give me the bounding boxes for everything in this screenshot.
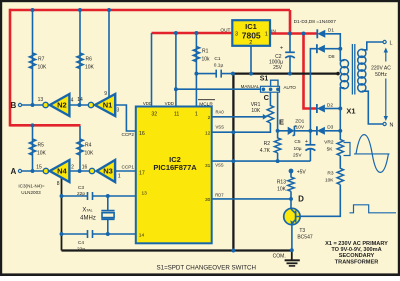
svg-text:D1-D3,D8 =1N4007: D1-D3,D8 =1N4007: [294, 19, 337, 25]
wire D1 to column: [325, 34, 340, 49]
junction C3 left: [60, 194, 64, 198]
svg-text:17: 17: [139, 171, 145, 177]
IC U1 7805 body: [232, 20, 270, 46]
resistor R13: [288, 177, 294, 191]
wire AUTO to E: [277, 92, 279, 131]
junction D: [289, 197, 293, 201]
wire +12V lower-left rail: [10, 124, 81, 127]
transformer X1 core: [352, 44, 354, 95]
svg-text:7805: 7805: [242, 30, 261, 40]
svg-text:D2: D2: [327, 102, 333, 108]
svg-text:4: 4: [71, 98, 74, 104]
svg-text:220V AC: 220V AC: [371, 66, 391, 72]
label C4: [77, 240, 85, 253]
svg-text:A: A: [11, 167, 17, 176]
wire D to collector: [290, 199, 292, 210]
junction C2 gnd: [288, 72, 292, 76]
svg-text:D1: D1: [328, 28, 334, 34]
label pin 14: [77, 97, 83, 103]
svg-text:2: 2: [249, 40, 252, 46]
label C3: [77, 185, 85, 197]
bubble N3 input: [89, 168, 94, 173]
label R13: [277, 180, 287, 193]
wire VSS31 row: [212, 160, 311, 162]
label node D: [298, 194, 304, 203]
wire E to R2: [277, 131, 279, 139]
junction E: [276, 129, 280, 133]
svg-text:ULN2003: ULN2003: [21, 190, 41, 195]
junction pin9 top: [107, 8, 111, 12]
junction R4 bottom: [78, 169, 82, 173]
junction centre tap: [336, 72, 340, 76]
label D8: [328, 54, 334, 60]
transformer X1 primary: [358, 49, 366, 92]
terminal B: [18, 103, 21, 106]
svg-text:ZD1: ZD1: [295, 118, 304, 124]
resistor R4: [77, 139, 83, 155]
diode D8: [317, 44, 325, 53]
junction D2-column: [338, 107, 342, 111]
label T3: [297, 228, 313, 241]
svg-text:T3: T3: [299, 228, 305, 234]
ground symbol: [285, 251, 300, 266]
diode D3: [317, 126, 325, 135]
wire C1 row: [196, 73, 233, 75]
wire VDD pin32: [151, 33, 153, 107]
svg-text:N4: N4: [57, 167, 67, 176]
wire base from R3: [300, 185, 340, 217]
transformer X1 secondary: [340, 60, 348, 89]
svg-text:X1: X1: [346, 107, 355, 116]
label pin 2: [71, 165, 74, 171]
label VR1: [251, 102, 261, 114]
label OUT: [220, 27, 230, 33]
label C pole: [264, 93, 270, 102]
resistor R2: [274, 138, 280, 153]
wire raw DC row to IC1 IN: [269, 32, 319, 35]
svg-text:14: 14: [77, 97, 83, 103]
wire B to N2: [22, 104, 43, 106]
label pin 1 uln: [118, 174, 121, 180]
svg-text:N3: N3: [103, 167, 113, 176]
label pin 8: [57, 181, 60, 187]
svg-text:10K: 10K: [37, 151, 47, 157]
svg-text:15: 15: [36, 164, 42, 170]
bubble N1 input: [88, 102, 93, 107]
wire manual row: [176, 88, 261, 90]
capacitor C4: [88, 229, 93, 239]
label pin 15: [36, 164, 42, 170]
transistor T3: [284, 208, 300, 225]
junction R5 top: [31, 123, 35, 127]
label 220V AC 50Hz: [371, 66, 391, 79]
svg-text:R5: R5: [38, 143, 45, 149]
junction spine-bottom: [231, 249, 235, 253]
svg-text:25V: 25V: [273, 65, 283, 71]
svg-text:TO 9V-0-9V, 300mA: TO 9V-0-9V, 300mA: [331, 247, 381, 253]
svg-text:AUTO: AUTO: [284, 85, 297, 90]
svg-text:MCLR: MCLR: [199, 101, 213, 107]
wire secondary top: [340, 49, 344, 61]
label S1: [260, 76, 269, 83]
label COM: [273, 254, 286, 260]
label pin 16b: [82, 165, 88, 171]
capacitor C3: [88, 191, 93, 201]
square wave icon: [350, 205, 397, 213]
wire R4 column: [79, 126, 81, 171]
label R2: [260, 141, 271, 154]
capacitor C5: [305, 131, 315, 161]
note S1: [157, 264, 256, 271]
svg-text:+: +: [305, 139, 308, 145]
svg-text:TRANSFORMER: TRANSFORMER: [335, 259, 379, 265]
svg-text:S1: S1: [260, 76, 269, 83]
wire RD7 row: [212, 198, 291, 200]
svg-text:L: L: [390, 41, 393, 47]
resistor R5: [29, 139, 35, 155]
svg-text:N2: N2: [57, 101, 67, 110]
wire 7805 pin2 ground: [250, 46, 252, 74]
svg-text:C5: C5: [294, 139, 300, 145]
svg-text:D: D: [298, 194, 304, 203]
potentiometer VR2: [337, 139, 350, 155]
svg-text:10K: 10K: [251, 108, 261, 114]
wire R2 bottom: [277, 153, 279, 161]
junction R2-VSS31: [276, 159, 280, 163]
label R6: [85, 57, 95, 71]
svg-text:RA0: RA0: [216, 109, 225, 114]
wire VDD pin11: [175, 33, 177, 107]
svg-text:MANUAL: MANUAL: [241, 84, 260, 89]
wire ground spine: [232, 74, 234, 251]
wire primary to N: [362, 91, 383, 124]
wire red drop to D2: [304, 34, 318, 109]
label L: [390, 41, 393, 47]
label R3: [325, 171, 334, 184]
svg-text:5K: 5K: [327, 147, 334, 153]
label pin 4: [71, 98, 74, 104]
svg-text:3: 3: [117, 107, 120, 113]
wire primary to L: [362, 42, 383, 50]
label R5: [37, 143, 47, 157]
junction R7 top: [31, 8, 35, 12]
junction C4 left: [60, 232, 64, 236]
svg-text:1: 1: [265, 31, 268, 37]
svg-text:10K: 10K: [85, 65, 95, 71]
svg-text:1: 1: [195, 112, 198, 118]
inverter N4: [50, 160, 70, 182]
label PIC16F877A: [153, 163, 197, 172]
label diode note: [294, 19, 337, 25]
svg-text:13: 13: [142, 191, 148, 197]
junction R1 top: [194, 31, 198, 35]
wire ZD1 to D3: [294, 130, 317, 132]
wire VSS12 row: [212, 123, 271, 132]
capacitor C1: [216, 69, 221, 79]
wire D2 to column: [325, 108, 340, 110]
label ZD1: [295, 118, 305, 130]
svg-text:R1: R1: [202, 49, 209, 55]
svg-text:10K: 10K: [277, 187, 287, 193]
label pin 13: [38, 97, 44, 103]
supply +5V tap: [289, 169, 307, 176]
svg-text:31: 31: [205, 163, 211, 169]
svg-text:12: 12: [205, 131, 211, 137]
label pin 9: [104, 91, 107, 97]
wire emitter to ground: [290, 225, 294, 253]
junction C1-ground: [231, 72, 235, 76]
svg-text:10K: 10K: [38, 65, 48, 71]
label D1: [328, 28, 334, 34]
wire D8 to column: [325, 48, 340, 50]
svg-text:9: 9: [104, 91, 107, 97]
svg-text:R13: R13: [277, 180, 286, 186]
junction XTAL bottom: [106, 232, 110, 236]
wire +12V left rail: [9, 9, 12, 127]
wire R13 to D: [290, 191, 292, 199]
label node E: [279, 118, 284, 127]
diode D1: [317, 29, 325, 38]
svg-text:13: 13: [38, 97, 44, 103]
wire D8 cathode drop: [310, 49, 317, 131]
junction R6 bottom: [77, 103, 81, 107]
wire ground rail to transformer centre tap: [233, 72, 337, 74]
inverter N3: [97, 160, 116, 182]
label CCP2: [121, 132, 134, 137]
svg-text:C: C: [264, 93, 270, 102]
wire +12V top rail: [10, 9, 290, 12]
svg-text:R7: R7: [38, 57, 45, 63]
svg-text:14: 14: [139, 233, 145, 239]
label IN: [271, 28, 276, 34]
mains arrow: [384, 48, 388, 122]
wire +5V rail to IC1 OUT: [152, 32, 233, 35]
junction D2 drop: [302, 32, 306, 36]
label X1: [346, 107, 355, 116]
sine wave icon: [354, 135, 390, 173]
svg-text:COM.: COM.: [273, 254, 286, 260]
wire E to ZD1: [278, 130, 288, 132]
wire OSC1 row: [62, 195, 136, 197]
svg-text:C3: C3: [78, 185, 84, 191]
svg-text:2: 2: [71, 165, 74, 171]
crystal XTAL: [101, 196, 114, 234]
wire +5V to R13: [290, 171, 292, 178]
svg-text:RD7: RD7: [215, 193, 224, 198]
label VR2: [324, 140, 334, 153]
label AUTO: [284, 85, 297, 90]
wire D3 junction to VR2: [339, 131, 341, 140]
capacitor C2: [285, 34, 295, 74]
potentiometer VR1: [267, 105, 273, 123]
svg-text:16: 16: [139, 131, 145, 137]
junction D6col-ZD1: [308, 129, 312, 133]
label IC2: [169, 155, 181, 164]
pin numbers right: [205, 115, 211, 203]
svg-text:B: B: [11, 101, 17, 110]
svg-text:+5V: +5V: [297, 169, 307, 175]
svg-text:10V: 10V: [296, 124, 305, 130]
resistor R1: [193, 47, 199, 62]
switch S1: [261, 80, 280, 92]
wire N1 to CCP2: [115, 105, 136, 131]
svg-text:2: 2: [208, 115, 211, 121]
label IC1 7805: [235, 22, 268, 46]
label D3: [327, 125, 333, 131]
svg-text:10K: 10K: [325, 178, 334, 184]
svg-text:R2: R2: [264, 141, 271, 147]
svg-text:PIC16F877A: PIC16F877A: [153, 163, 197, 172]
svg-text:3: 3: [235, 31, 238, 37]
svg-text:N: N: [390, 123, 394, 129]
svg-text:30: 30: [205, 197, 211, 203]
svg-text:10µ: 10µ: [293, 146, 301, 152]
svg-text:C1: C1: [214, 56, 220, 62]
inverter N1: [95, 94, 115, 116]
svg-text:E: E: [279, 118, 284, 127]
wire VR2 to R3: [339, 156, 341, 169]
svg-text:11: 11: [174, 112, 179, 118]
svg-text:+: +: [280, 46, 283, 52]
wire bottom ground rail: [62, 249, 292, 251]
wire RA0 to wiper: [212, 114, 268, 120]
svg-text:S1=SPDT CHANGEOVER SWITCH: S1=SPDT CHANGEOVER SWITCH: [157, 264, 256, 271]
label N: [390, 123, 394, 129]
inverter N2: [50, 94, 70, 116]
label C1: [214, 56, 224, 69]
svg-text:0.1µ: 0.1µ: [214, 63, 224, 69]
junction D3-column: [338, 129, 342, 133]
wire S1 pole to VR1: [269, 92, 271, 106]
label node B: [11, 101, 17, 110]
svg-text:32: 32: [151, 112, 157, 118]
svg-text:X1 = 230V AC PRIMARY: X1 = 230V AC PRIMARY: [325, 241, 388, 247]
label CCP1: [121, 164, 134, 169]
diode D2: [317, 104, 325, 113]
svg-text:VR2: VR2: [324, 140, 334, 146]
junction R1-C1: [194, 72, 198, 76]
svg-text:4MHz: 4MHz: [80, 216, 96, 222]
junction VSS12 spine: [231, 130, 235, 134]
svg-text:22p: 22p: [77, 247, 85, 253]
svg-text:R4: R4: [85, 143, 92, 149]
junction VDD11 top: [174, 31, 178, 35]
svg-text:VSS: VSS: [215, 162, 224, 167]
label XTAL: [80, 208, 96, 222]
label D2: [327, 102, 333, 108]
pin numbers left: [139, 131, 147, 239]
label RA0 VSS VSS RD7: [215, 109, 224, 197]
label R7: [38, 57, 48, 71]
junction XTAL top: [106, 194, 110, 198]
svg-text:SECONDARY: SECONDARY: [339, 253, 375, 259]
svg-text:25V: 25V: [293, 152, 302, 158]
bubble N4 input: [43, 168, 48, 173]
wire MCLR column: [195, 33, 197, 107]
label R1: [202, 49, 211, 63]
label C5: [293, 139, 308, 158]
svg-text:IC3(N1-N4)=: IC3(N1-N4)=: [18, 184, 44, 189]
svg-text:BC547: BC547: [297, 235, 313, 241]
IC U2 PIC16F877A body: [136, 107, 212, 244]
label MANUAL: [241, 84, 260, 89]
wire raw DC right drop: [289, 10, 292, 35]
wire R6 column: [79, 10, 81, 105]
svg-text:R3: R3: [327, 171, 333, 177]
label pin 3: [117, 107, 120, 113]
resistor R3: [337, 168, 343, 184]
svg-text:CCP2: CCP2: [121, 132, 134, 137]
bubble N2 input: [43, 102, 48, 107]
svg-text:16: 16: [82, 165, 88, 171]
svg-text:VDD: VDD: [165, 101, 174, 106]
note transformer: [325, 241, 388, 266]
junction B-R7: [31, 103, 35, 107]
junction R6 top: [78, 8, 82, 12]
svg-text:D3: D3: [327, 125, 333, 131]
zener ZD1: [288, 126, 297, 136]
svg-text:22p: 22p: [77, 191, 85, 197]
junction VSS31 spine: [231, 159, 235, 163]
label VDD VDD MCLR: [143, 100, 215, 108]
label node A: [11, 167, 17, 176]
label R4: [85, 143, 95, 157]
svg-text:R6: R6: [86, 57, 93, 63]
svg-text:IN: IN: [271, 28, 276, 34]
wire OSC2 row: [62, 233, 136, 235]
svg-text:VSS: VSS: [216, 125, 225, 130]
terminal L: [383, 40, 386, 43]
resistor R7: [29, 53, 35, 69]
terminal A: [18, 169, 21, 172]
svg-text:C4: C4: [78, 240, 84, 246]
label IC3 ULN2003: [18, 184, 44, 196]
svg-text:N1: N1: [103, 101, 113, 110]
wire ULN2003 pin 8 ground: [61, 175, 63, 251]
svg-text:VR1: VR1: [251, 102, 261, 108]
wire N2 out: [69, 104, 88, 106]
wire N3 to CCP1: [115, 170, 136, 172]
resistor R6: [77, 53, 83, 69]
wire D3 to column: [325, 130, 340, 132]
svg-text:50Hz: 50Hz: [375, 72, 387, 78]
junction C2 top: [288, 32, 292, 36]
svg-text:CCP1: CCP1: [121, 164, 134, 169]
pin numbers top: [151, 112, 197, 118]
svg-text:8: 8: [57, 181, 60, 187]
wire A to N4: [22, 170, 43, 172]
svg-text:10K: 10K: [85, 151, 95, 157]
terminal N: [383, 122, 386, 125]
junction manual-VDD: [174, 87, 178, 91]
svg-text:10k: 10k: [202, 57, 211, 63]
svg-text:1: 1: [118, 174, 121, 180]
svg-text:D8: D8: [328, 54, 334, 60]
junction D8-column: [338, 47, 342, 51]
wire R5 column: [32, 125, 34, 171]
wire N4 out: [69, 170, 89, 172]
svg-text:4.7K: 4.7K: [260, 148, 271, 154]
label C2: [269, 46, 283, 72]
junction 7805 gnd: [249, 72, 253, 76]
junction A-R5: [31, 169, 35, 173]
wire ULN pin 9 supply: [108, 10, 110, 99]
svg-text:OUT: OUT: [220, 27, 230, 33]
wire R7 column: [32, 10, 34, 105]
wire secondary bottom: [340, 88, 344, 131]
